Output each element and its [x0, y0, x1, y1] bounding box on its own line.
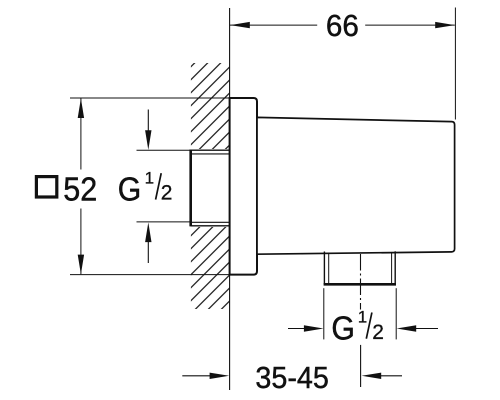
flange plate (wall escutcheon): [230, 98, 257, 275]
wall section hatch (lower part, below concealed inlet): [191, 226, 230, 309]
inlet thread bottom outer line: [191, 225, 230, 227]
mid G1/2 bottom arrowhead (pointing up): [145, 222, 151, 242]
bottom G1/2 left arrowhead (pointing right): [304, 325, 324, 331]
svg-text:2: 2: [372, 321, 384, 344]
bottom G1/2 right arrowhead (pointing left): [397, 325, 417, 331]
dim 35-45 left arrowhead (pointing right): [210, 373, 230, 379]
svg-text:66: 66: [326, 8, 359, 43]
dim 66 right arrowhead: [435, 22, 455, 28]
outlet thread right outer line: [394, 251, 396, 284]
wall section hatch (upper part, above concealed inlet): [191, 63, 230, 150]
svg-text:52: 52: [63, 170, 97, 207]
dim 52 top arrowhead: [78, 98, 84, 118]
mid G1/2 top arrow tail: [147, 110, 149, 132]
svg-text:2: 2: [161, 182, 173, 205]
inlet thread body (concealed connection behind wall, white fill): [189, 149, 229, 227]
svg-text:35-45: 35-45: [255, 360, 329, 395]
bottom G1/2 left extension line: [323, 288, 325, 339]
dim 52 top extension line: [70, 97, 230, 99]
dim 52 bottom arrowhead: [78, 255, 84, 275]
outlet thread left inner line: [328, 253, 330, 284]
mid G1/2 bottom arrow tail: [147, 242, 149, 263]
dim 52 bottom extension line: [70, 274, 230, 276]
mid G1/2 top extension line: [137, 149, 191, 151]
mid G1/2 top arrowhead (pointing down): [145, 130, 151, 150]
svg-text:G: G: [331, 309, 355, 346]
dim 66 left arrowhead: [230, 22, 250, 28]
dim 35-45 right arrow tail: [381, 375, 402, 377]
dim 66 line left segment: [230, 24, 317, 26]
bottom G1/2 right extension line: [395, 288, 397, 339]
svg-text:1: 1: [358, 307, 367, 326]
elbow body (tapered spout): [257, 117, 455, 254]
bottom G1/2 right arrow tail: [416, 328, 438, 330]
dim 35-45 left arrow tail: [182, 375, 210, 377]
dim 52 line lower segment: [80, 209, 82, 275]
wall face line (also extension line for dims 66 and 35-45): [229, 8, 231, 390]
outlet thread bottom end cap: [324, 283, 396, 286]
bottom G1/2 fraction slash: [366, 313, 372, 339]
dim 35-45 right arrowhead (pointing left): [362, 373, 382, 379]
mid G1/2 bottom extension line: [137, 221, 191, 223]
square symbol of dim 52: [36, 177, 56, 197]
mid G1/2 fraction slash: [156, 173, 162, 199]
inlet thread top outer line: [191, 149, 230, 151]
inlet thread left end cap: [189, 150, 192, 227]
outlet centerline (dash-dot): [360, 254, 362, 310]
dim 66 right extension line: [454, 8, 456, 120]
outlet thread right inner line: [391, 253, 393, 284]
inlet thread bottom inner line: [192, 221, 230, 223]
dim 66 line right segment: [365, 24, 455, 26]
outlet thread left outer line: [323, 252, 325, 285]
svg-text:1: 1: [145, 168, 154, 187]
dim 52 line upper segment: [80, 98, 82, 169]
inlet thread top inner line: [192, 153, 230, 155]
outlet centerline lower extension (for dim 35-45): [360, 345, 362, 387]
bottom G1/2 left arrow tail: [288, 328, 305, 330]
svg-text:G: G: [118, 170, 142, 207]
